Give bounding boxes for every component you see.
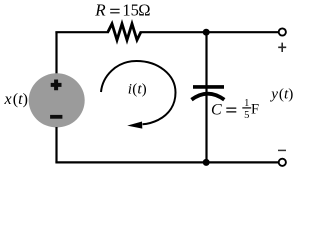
- voltage source U1 body: [29, 73, 85, 127]
- svg-text:R: R: [94, 1, 106, 20]
- wire: capacitor branch vertical: [205, 33, 207, 161]
- wire: top rail right segment to output terminal: [140, 31, 279, 33]
- terminal: output plus: [279, 28, 286, 35]
- junction node: bottom of capacitor branch: [203, 159, 210, 166]
- svg-text:(t): (t): [132, 81, 146, 98]
- svg-text:(t): (t): [13, 91, 28, 108]
- svg-text:C: C: [211, 102, 222, 119]
- svg-text:5: 5: [244, 110, 249, 121]
- svg-text:F: F: [251, 102, 259, 118]
- capacitor C1 curved plate: [192, 94, 225, 100]
- wire: bottom rail: [55, 161, 278, 163]
- label + (output polarity): [278, 43, 286, 52]
- wire: left vertical from source bottom to bottom rail: [55, 127, 57, 163]
- junction node: top of capacitor branch: [203, 29, 210, 36]
- wire: top rail left segment: [55, 31, 109, 33]
- source minus sign: [50, 115, 62, 119]
- svg-text:x: x: [4, 91, 12, 108]
- wire: left vertical from top rail to source top: [55, 32, 57, 74]
- svg-text:15: 15: [122, 1, 138, 20]
- svg-text:(t): (t): [279, 86, 293, 103]
- terminal: output minus: [279, 159, 286, 166]
- resistor R1 zigzag: [108, 24, 141, 40]
- svg-text:1: 1: [244, 98, 249, 109]
- svg-text:y: y: [269, 86, 278, 103]
- source plus sign: [51, 80, 62, 91]
- svg-text:Ω: Ω: [138, 1, 150, 20]
- label - (output polarity): [278, 149, 286, 151]
- mesh current loop arrow i(t): [101, 61, 176, 124]
- arrowhead of loop: [127, 122, 142, 129]
- capacitor C1 top plate: [193, 85, 224, 89]
